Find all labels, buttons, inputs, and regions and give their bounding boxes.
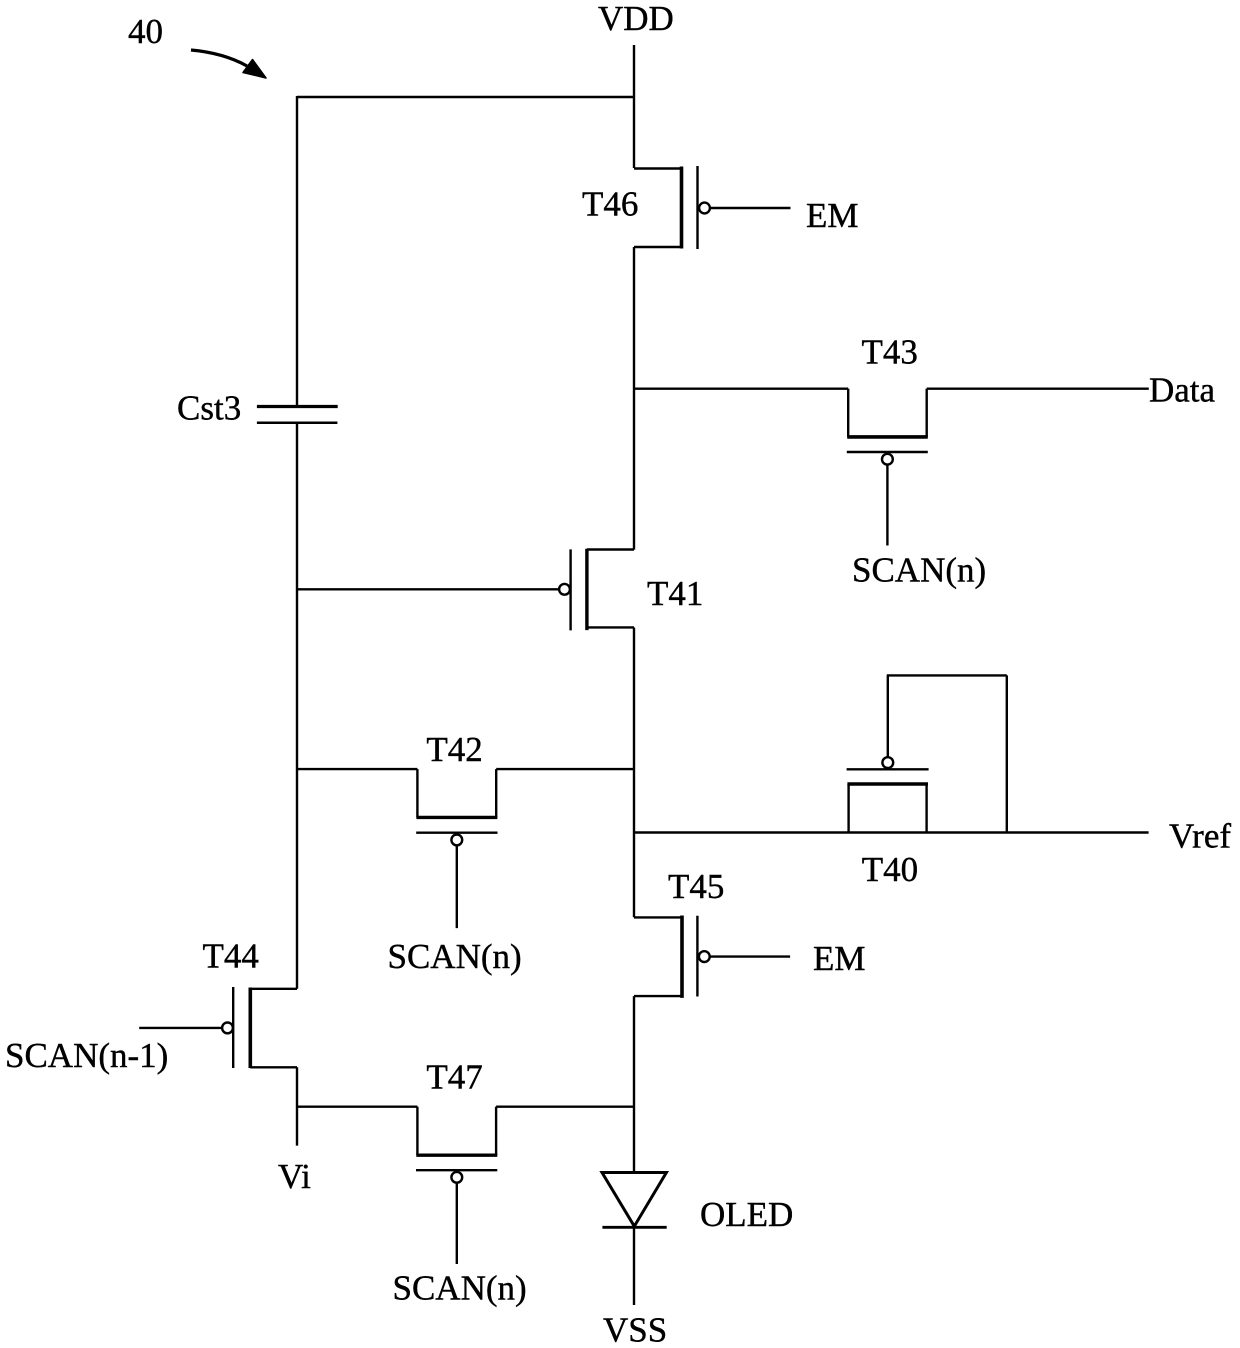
svg-text:Data: Data	[1149, 371, 1216, 410]
svg-text:T42: T42	[426, 730, 482, 769]
svg-text:T40: T40	[862, 850, 918, 889]
wire left vertical lower (Cst3 to T44)	[296, 423, 298, 989]
wire right vertical T45 to OLED	[633, 996, 635, 1172]
svg-text:VDD: VDD	[598, 0, 674, 38]
wire VDD lead	[633, 45, 635, 168]
wire Data lead	[927, 388, 1149, 390]
wire VSS lead	[633, 1227, 635, 1305]
transistor T42	[297, 769, 634, 845]
svg-text:T46: T46	[582, 185, 638, 224]
svg-text:EM: EM	[813, 939, 866, 978]
wire gate lead of T47	[456, 1183, 458, 1264]
diode OLED	[602, 1173, 667, 1228]
svg-text:T41: T41	[647, 574, 703, 613]
wire right vertical T46 to T41	[633, 247, 635, 550]
transistor T43	[634, 389, 928, 465]
svg-text:40: 40	[128, 12, 163, 51]
transistor T47	[297, 1107, 634, 1183]
svg-text:T43: T43	[862, 333, 918, 372]
svg-text:T47: T47	[426, 1058, 482, 1097]
wire Vref horizontal	[634, 831, 1149, 833]
wire EM lead of T45	[710, 955, 790, 957]
svg-text:T44: T44	[203, 937, 259, 976]
transistor T41	[559, 549, 634, 631]
transistor T40	[847, 757, 929, 832]
svg-text:Vi: Vi	[278, 1157, 311, 1196]
svg-text:SCAN(n): SCAN(n)	[852, 550, 986, 589]
arrow leader for 40	[191, 50, 266, 78]
svg-text:Cst3: Cst3	[177, 389, 241, 428]
transistor T46	[634, 166, 710, 249]
svg-text:T45: T45	[668, 867, 724, 906]
svg-text:Vref: Vref	[1169, 817, 1231, 856]
capacitor Cst3	[257, 407, 338, 423]
transistor T44	[222, 987, 297, 1068]
svg-text:SCAN(n-1): SCAN(n-1)	[5, 1036, 168, 1075]
wire gate lead of T43	[886, 465, 888, 545]
wire gate feedback of T40	[887, 675, 1007, 832]
transistor T45	[634, 916, 710, 998]
svg-text:SCAN(n): SCAN(n)	[388, 937, 522, 976]
wire left vertical upper (to Cst3 top plate)	[296, 96, 298, 406]
wire EM lead of T46	[711, 207, 791, 209]
svg-text:EM: EM	[806, 196, 859, 235]
wire gate lead of T41	[297, 588, 559, 590]
svg-text:SCAN(n): SCAN(n)	[393, 1269, 527, 1308]
wire gate lead of T42	[456, 846, 458, 928]
wire left vertical T44 to T47	[296, 1067, 298, 1145]
svg-text:OLED: OLED	[700, 1195, 793, 1234]
wire right vertical T41 to T45	[633, 628, 635, 918]
wire gate lead of T44	[139, 1027, 222, 1029]
wire top horizontal	[297, 96, 634, 98]
svg-text:VSS: VSS	[603, 1311, 667, 1348]
